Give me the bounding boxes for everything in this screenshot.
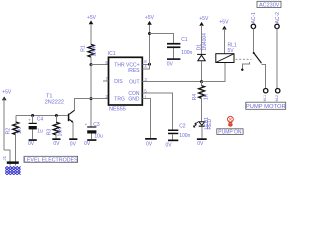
svg-text:M-1: M-1 (263, 95, 267, 102)
wire AC-1 to switch pole (252, 29, 254, 53)
wire junction to pin 2 TRG (91, 98, 109, 100)
resistor R1 (81, 44, 98, 57)
terminal M-2 (275, 89, 280, 102)
wire AC-2 down (276, 29, 278, 89)
resistor R2 (6, 116, 24, 135)
svg-text:AC230V: AC230V (259, 3, 280, 9)
wire GND pin 1 to ground (142, 99, 150, 138)
wire probe node vertical (90, 65, 92, 127)
+5V rail symbol above IC (145, 15, 155, 25)
svg-text:IC1: IC1 (108, 51, 116, 57)
svg-text:C4: C4 (37, 116, 44, 122)
svg-text:10u: 10u (94, 134, 103, 140)
svg-text:10K: 10K (58, 127, 64, 137)
capacitor C1 (167, 37, 193, 56)
svg-text:+5V: +5V (199, 16, 209, 22)
svg-text:TRG: TRG (114, 97, 125, 103)
node VCC junction (148, 63, 151, 66)
ground C2 (166, 140, 179, 149)
wire C3 to ground (90, 134, 92, 140)
svg-text:M-2: M-2 (275, 95, 279, 102)
wire T1 emitter to ground (72, 122, 74, 138)
node C1 branch junction (148, 32, 151, 35)
wire C2 to ground (172, 134, 174, 139)
op-amp U1 : IC1 NE555 timer box (108, 51, 143, 113)
ground C3 (84, 139, 96, 147)
wire R2 to electrode (15, 133, 17, 162)
svg-text:RED: RED (207, 119, 213, 130)
relay RL1 coil (216, 43, 237, 63)
svg-text:0V: 0V (167, 62, 174, 68)
svg-text:0V: 0V (53, 141, 60, 147)
svg-text:R2: R2 (6, 128, 12, 135)
ground T1 emitter (69, 138, 77, 147)
wire switch contact to motor terminal (262, 64, 266, 88)
svg-text:AC-1: AC-1 (251, 12, 257, 24)
relay switch blade (253, 52, 262, 63)
svg-text:DIS: DIS (114, 79, 123, 85)
svg-text:1K: 1K (17, 127, 23, 134)
+5V rail symbol left electrode (2, 90, 12, 150)
resistor R3 (47, 116, 64, 137)
terminal AC-2 (275, 12, 281, 29)
svg-text:GND: GND (128, 97, 140, 103)
svg-text:+5V: +5V (2, 90, 12, 96)
label PUMP MOTOR (246, 102, 286, 110)
wire to C1 (150, 34, 174, 43)
svg-text:0V: 0V (197, 141, 204, 147)
svg-text:/RES: /RES (128, 68, 140, 74)
svg-text:AC-2: AC-2 (275, 12, 281, 24)
ground C4 (28, 139, 37, 147)
node C4 junction (31, 114, 34, 117)
wire R3 to ground (55, 134, 57, 139)
wire base rail (16, 115, 68, 117)
svg-text:C3: C3 (93, 122, 100, 128)
transistor T1 2N2222 (45, 94, 75, 123)
capacitor C2 (168, 123, 191, 138)
svg-text:0V: 0V (166, 142, 173, 148)
node THR junction (90, 63, 93, 66)
+5V rail symbol above R1 (87, 15, 97, 45)
wire OUT pin 3 (142, 81, 201, 83)
svg-text:C1: C1 (181, 37, 188, 43)
resistor R4 (192, 82, 210, 101)
wire CON pin 5 to C2 (142, 93, 172, 129)
label LEVEL ELECTRODES (24, 156, 78, 163)
terminal M-1 (263, 89, 268, 102)
wire VCC+ pin 8 to +5V (142, 63, 149, 65)
wire OUT node to relay coil (202, 63, 225, 82)
svg-text:5V: 5V (228, 48, 235, 54)
wire pin 4 /RES loop (142, 64, 149, 69)
pin 7 DIS stub (103, 80, 109, 82)
svg-text:1N4004: 1N4004 (202, 33, 208, 51)
wire R1 bottom to THR junction (90, 57, 92, 64)
svg-text:0V: 0V (70, 141, 77, 147)
+5V rail symbol above relay (219, 19, 229, 53)
wire +5V vertical (149, 25, 151, 65)
svg-text:100K: 100K (92, 44, 98, 56)
svg-text:PUMP MOTOR: PUMP MOTOR (246, 104, 286, 110)
svg-text:R1: R1 (81, 45, 87, 52)
node OUT junction (200, 80, 203, 83)
svg-text:0V: 0V (84, 141, 91, 147)
svg-text:+5V: +5V (87, 15, 97, 21)
node TRG junction (90, 97, 93, 100)
svg-text:R3: R3 (47, 129, 53, 136)
water symbol (5, 167, 20, 175)
label PUMP ON (217, 129, 243, 136)
svg-text:1u: 1u (37, 128, 43, 134)
capacitor C4 (28, 116, 43, 135)
ground IC pin 1 (145, 138, 157, 148)
ground LED (197, 138, 207, 147)
wire junction to pin 6 THR (91, 64, 109, 66)
svg-text:+: + (28, 117, 31, 122)
svg-text:100n: 100n (179, 133, 190, 139)
wire LED to ground (201, 127, 203, 139)
+5V rail symbol above D1 (199, 16, 209, 54)
svg-text:THR: THR (114, 63, 125, 69)
svg-text:+: + (85, 122, 88, 127)
svg-text:C2: C2 (179, 123, 186, 129)
wire R4 to LED (201, 99, 203, 122)
svg-text:+5V: +5V (145, 15, 155, 21)
relay NC contact stub (241, 62, 249, 71)
svg-text:LEVEL ELECTRODES: LEVEL ELECTRODES (24, 157, 78, 163)
node R3 junction (55, 114, 58, 117)
ground C1 (167, 58, 181, 67)
lamp indicator icon (red bulb) (228, 116, 234, 126)
diode D1 1N4004 (196, 33, 207, 61)
dashed actuator link (236, 58, 252, 60)
ground R3 (52, 138, 60, 147)
wire T1 collector to TRG node (75, 99, 91, 111)
svg-text:OUT: OUT (129, 80, 140, 86)
svg-text:0V: 0V (28, 141, 35, 147)
wire C1 to ground (173, 48, 175, 58)
wire +5V to electrode 1 (4, 150, 10, 162)
terminal AC-1 (251, 12, 257, 29)
electrode probe bars (7, 161, 19, 165)
svg-text:2N2222: 2N2222 (45, 99, 64, 105)
label AC 230V (257, 1, 281, 8)
svg-text:1K: 1K (204, 93, 210, 100)
svg-text:0V: 0V (146, 142, 153, 148)
wire D1 anode to OUT node (201, 61, 203, 82)
svg-text:R4: R4 (192, 94, 198, 101)
svg-text:NE555: NE555 (109, 107, 126, 113)
svg-text:PUMP ON: PUMP ON (218, 130, 242, 136)
wire C4 to ground (32, 129, 34, 139)
svg-text:J1: J1 (2, 155, 7, 160)
capacitor C3 (85, 122, 103, 140)
svg-text:+5V: +5V (219, 19, 229, 25)
LED D2 (193, 117, 213, 130)
svg-text:100n: 100n (181, 50, 192, 56)
